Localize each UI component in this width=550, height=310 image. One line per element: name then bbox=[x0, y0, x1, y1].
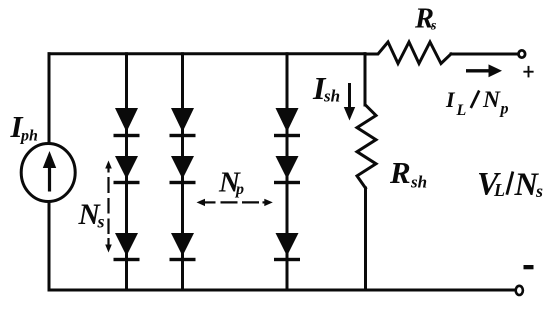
plus sign bbox=[523, 66, 533, 78]
wire shunt branch lower bbox=[364, 188, 367, 290]
svg-text:s: s bbox=[535, 181, 543, 201]
svg-text:L: L bbox=[456, 102, 467, 119]
diode D1 column1 bbox=[114, 108, 140, 137]
diode D3 column2 bbox=[170, 233, 196, 261]
node negative terminal bbox=[516, 286, 523, 295]
wire shunt branch upper bbox=[364, 54, 367, 105]
label R_sh bbox=[389, 155, 427, 192]
svg-text:L: L bbox=[493, 180, 505, 200]
arrow I_L direction bbox=[466, 64, 502, 77]
resistor R_s bbox=[365, 42, 451, 64]
label N_s bbox=[78, 199, 105, 232]
svg-text:p: p bbox=[234, 181, 244, 198]
svg-text:N: N bbox=[482, 87, 501, 113]
wire left rail bbox=[48, 54, 51, 290]
wire diode column 1 bbox=[125, 54, 128, 290]
label V_L / N_s bbox=[477, 167, 543, 204]
diode D2 column1 bbox=[114, 156, 140, 184]
label N_p bbox=[218, 166, 244, 198]
svg-text:p: p bbox=[499, 101, 509, 118]
wire bottom rail bbox=[49, 289, 518, 292]
diode D3 column1 bbox=[114, 233, 140, 261]
svg-text:sh: sh bbox=[410, 173, 427, 192]
dashed arrow N_s span bbox=[105, 161, 112, 253]
svg-text:s: s bbox=[430, 19, 437, 34]
label R_s bbox=[414, 3, 437, 34]
wire diode column 3 bbox=[286, 54, 289, 290]
diode D3 column3 bbox=[274, 233, 300, 261]
wire to positive terminal bbox=[451, 53, 517, 56]
diode D2 column3 bbox=[274, 156, 300, 184]
label I_L / N_p bbox=[445, 87, 509, 119]
dashed arrow N_p span bbox=[197, 199, 273, 206]
diode D1 column2 bbox=[170, 108, 196, 137]
svg-text:I: I bbox=[445, 87, 456, 112]
minus sign bbox=[524, 265, 534, 269]
current source I_ph bbox=[21, 144, 75, 202]
label I_sh bbox=[312, 70, 340, 106]
diode D2 column2 bbox=[170, 156, 196, 184]
label I_ph bbox=[10, 109, 39, 145]
svg-text:s: s bbox=[97, 212, 105, 232]
svg-text:ph: ph bbox=[19, 128, 38, 145]
svg-text:R: R bbox=[389, 155, 411, 190]
resistor R_sh bbox=[357, 105, 376, 188]
wire diode column 2 bbox=[181, 54, 184, 290]
wire top rail bbox=[49, 52, 365, 55]
svg-text:sh: sh bbox=[323, 87, 340, 106]
diode D1 column3 bbox=[274, 108, 300, 137]
arrow I_sh bbox=[344, 83, 355, 121]
node positive terminal bbox=[519, 50, 526, 57]
